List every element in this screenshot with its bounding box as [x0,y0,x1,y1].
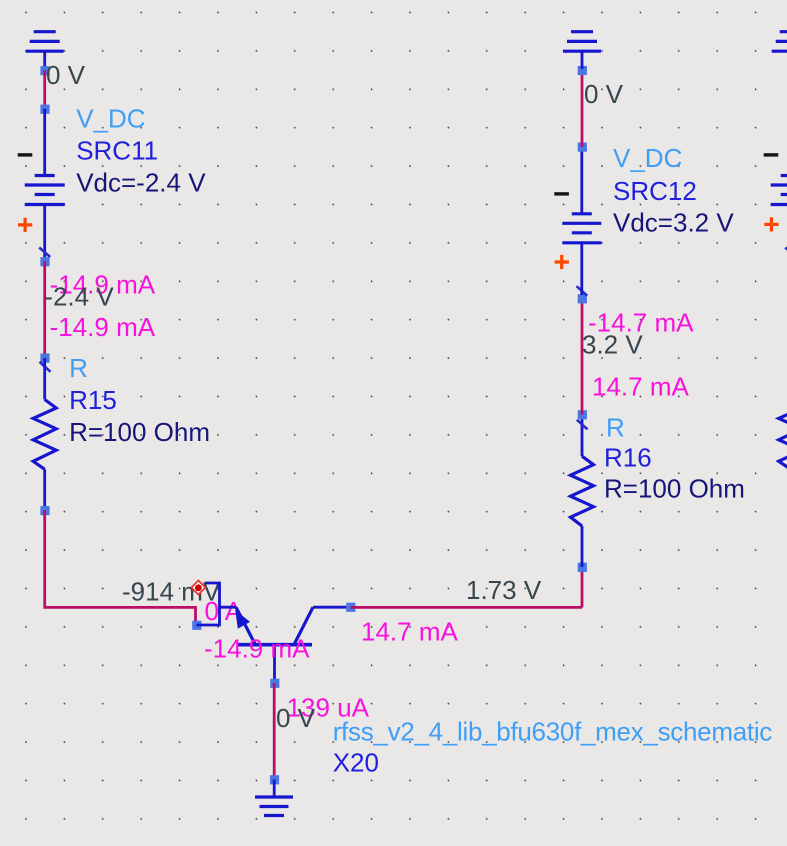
svg-text:Vdc=-2.4 V: Vdc=-2.4 V [76,168,206,198]
svg-text:14.7 mA: 14.7 mA [592,372,689,402]
wire [43,109,46,176]
svg-text:1.73 V: 1.73 V [466,575,542,605]
node emitter [192,621,201,630]
node collector [346,603,355,612]
node [40,257,49,266]
node [578,563,587,572]
svg-text:SRC12: SRC12 [613,176,697,206]
svg-text:0 V: 0 V [584,79,624,109]
svg-text:R15: R15 [69,385,117,415]
svg-text:0 V: 0 V [46,60,86,90]
voltage source clipped right edge [764,153,787,257]
resistor clipped right edge [779,400,787,470]
voltage source V_DC SRC12 [554,148,601,296]
resistor R16 [571,416,594,567]
svg-text:14.7 mA: 14.7 mA [361,617,458,647]
svg-text:-2.4 V: -2.4 V [44,282,114,312]
wire [273,780,276,798]
node [578,294,587,303]
node (left supply minus) [40,66,49,75]
node [40,354,49,363]
wire [45,510,196,625]
svg-text:X20: X20 [333,748,379,778]
pin marker red diamond [191,581,205,595]
svg-text:-14.9 mA: -14.9 mA [50,312,156,342]
node [578,410,587,419]
wire [581,567,584,607]
svg-text:V_DC: V_DC [613,143,682,173]
svg-text:R=100 Ohm: R=100 Ohm [604,474,745,504]
wire [581,299,584,415]
svg-text:R: R [606,413,625,443]
svg-text:Vdc=3.2 V: Vdc=3.2 V [613,208,734,238]
svg-text:-14.7 mA: -14.7 mA [588,308,694,338]
node [40,506,49,515]
wire [581,70,584,147]
wire [351,606,583,609]
wire [43,261,46,357]
wire [273,683,276,780]
svg-text:-14.9 mA: -14.9 mA [204,634,310,664]
svg-text:V_DC: V_DC [76,104,145,134]
node base [270,679,279,688]
ground GND top-left [26,32,64,69]
wire jog to substrate pin [197,583,220,625]
svg-text:SRC11: SRC11 [76,136,158,166]
svg-text:rfss_v2_4_lib_bfu630f_mex_sche: rfss_v2_4_lib_bfu630f_mex_schematic [333,717,773,747]
transistor X20 BJT [220,607,352,683]
voltage source V_DC SRC11 [18,153,65,258]
node [40,105,49,114]
svg-text:0 V: 0 V [276,703,316,733]
ground clipped right edge [772,32,787,52]
resistor R15 [33,358,56,510]
node [270,775,279,784]
ground GND bottom [255,797,293,816]
svg-text:R16: R16 [604,443,652,473]
svg-text:R: R [69,353,88,383]
wire [43,70,46,109]
ground GND top-right [563,32,601,69]
node [578,66,587,75]
node [578,143,587,152]
svg-text:R=100 Ohm: R=100 Ohm [69,417,210,447]
